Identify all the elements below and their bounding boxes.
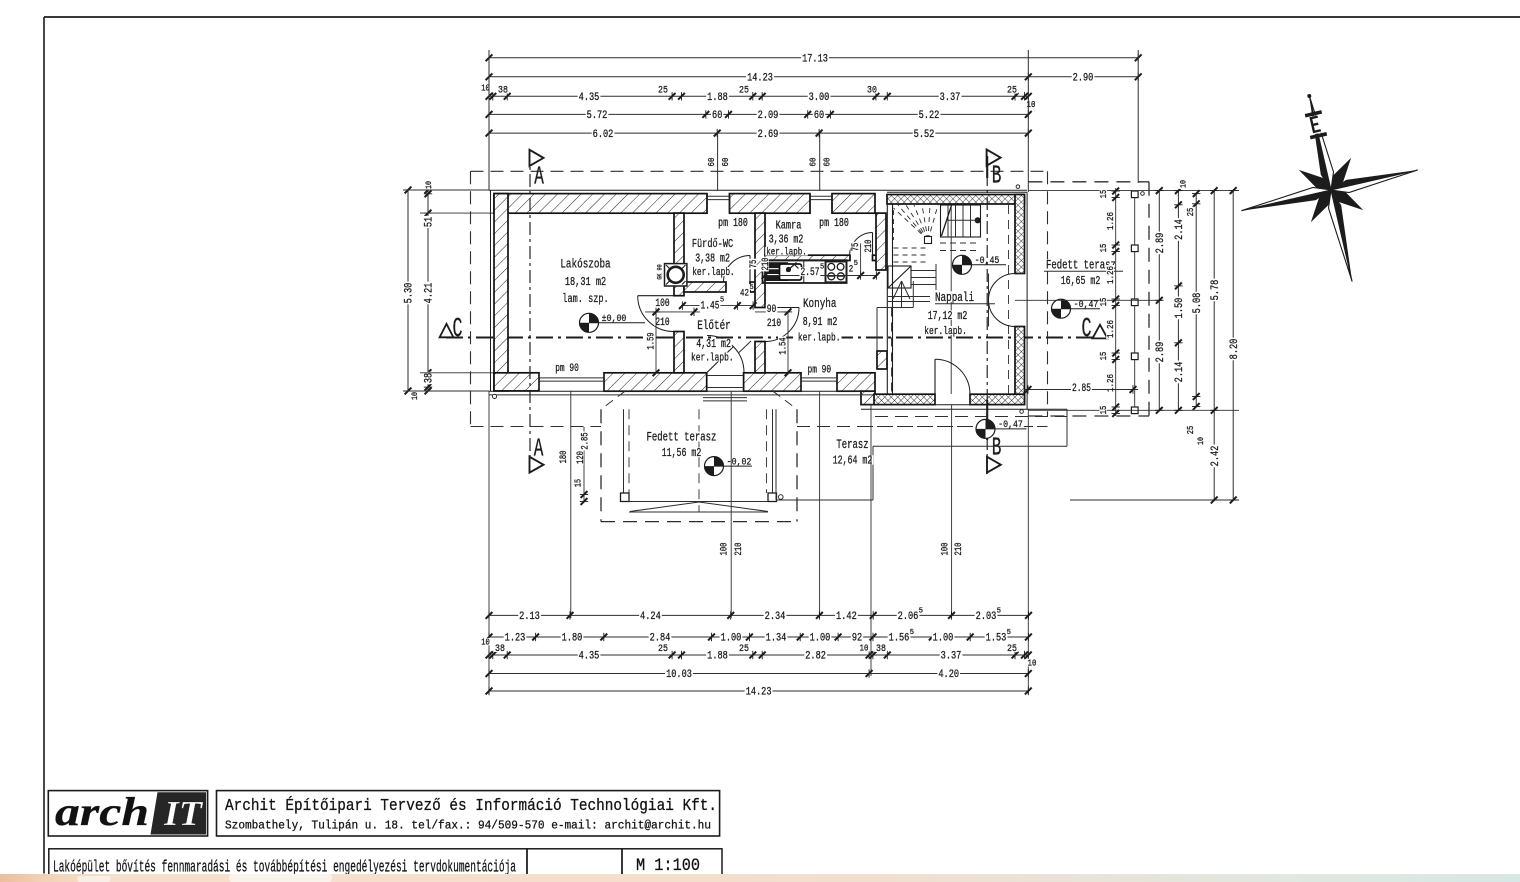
svg-text:5.78: 5.78 bbox=[1210, 280, 1222, 301]
door Lakoszoba leaf+arc bbox=[638, 295, 674, 297]
dimension row 6.02/2.69/5.52 bbox=[489, 132, 1028, 134]
svg-text:1.26: 1.26 bbox=[1105, 266, 1116, 284]
door Kamra leaf+arc bbox=[872, 233, 874, 256]
room label Furdo-WC bbox=[691, 238, 734, 248]
wall bottom segment 3 bbox=[744, 373, 801, 391]
base plaster lines bottom bbox=[489, 390, 875, 392]
room label Nappali bbox=[934, 291, 975, 302]
left extension lines bbox=[403, 189, 489, 191]
stair upper flight bbox=[941, 205, 981, 237]
right dim 2.14/1.50/2.14 bbox=[1177, 191, 1179, 411]
svg-text:5: 5 bbox=[854, 260, 858, 268]
entrance door threshold bbox=[707, 375, 744, 377]
room label Fedett terasz right bbox=[1045, 259, 1117, 269]
svg-text:4.35: 4.35 bbox=[579, 651, 600, 663]
svg-text:38: 38 bbox=[498, 85, 508, 97]
svg-text:5.52: 5.52 bbox=[914, 129, 935, 141]
svg-text:arch: arch bbox=[55, 789, 149, 834]
svg-text:5: 5 bbox=[997, 607, 1001, 615]
svg-text:1.56: 1.56 bbox=[889, 633, 910, 645]
new wall bottom bbox=[874, 394, 935, 404]
svg-text:1.42: 1.42 bbox=[836, 611, 857, 623]
wall top segment 1 bbox=[494, 194, 707, 214]
section line A bbox=[529, 150, 531, 470]
svg-text:25: 25 bbox=[1186, 208, 1196, 217]
covered terrace ridge dashed bbox=[698, 409, 700, 512]
svg-text:1.00: 1.00 bbox=[933, 633, 954, 645]
interior wall Elotier right lower bbox=[755, 342, 765, 373]
chimney flue symbol bbox=[665, 264, 687, 286]
window bottom Lakoszoba (pm 90) bbox=[539, 377, 604, 379]
title block empty box bbox=[527, 849, 622, 875]
svg-text:10: 10 bbox=[424, 181, 434, 189]
svg-text:Lakószoba: Lakószoba bbox=[560, 257, 610, 272]
interior dim 2-5 pier bbox=[860, 243, 862, 276]
svg-text:8,91 m2: 8,91 m2 bbox=[803, 316, 838, 329]
svg-text:5: 5 bbox=[919, 607, 923, 615]
title block project box bbox=[49, 849, 527, 875]
svg-text:25: 25 bbox=[658, 85, 668, 97]
interior wall Lakoszoba right lower bbox=[674, 332, 684, 373]
dimension row 17.13 bbox=[489, 57, 1138, 59]
svg-text:60: 60 bbox=[808, 157, 819, 166]
svg-text:17,12 m2: 17,12 m2 bbox=[928, 310, 968, 323]
svg-text:Kamra: Kamra bbox=[776, 218, 802, 232]
svg-text:14.23: 14.23 bbox=[746, 687, 772, 699]
door Furdo leaf+arc bbox=[749, 256, 751, 283]
interior wall Elotier right upper bbox=[755, 213, 765, 307]
wall bottom segment 4 bbox=[837, 373, 875, 391]
svg-text:C: C bbox=[1082, 315, 1092, 345]
logo IT parallelogram bbox=[151, 792, 207, 834]
dimension row top detail 38/4.35/25/1.88/25/3.00/30/3.37/25 bbox=[489, 95, 1028, 97]
window label pm 180 left bbox=[717, 218, 749, 227]
svg-text:ker.lapb.: ker.lapb. bbox=[766, 247, 807, 259]
svg-text:pm 180: pm 180 bbox=[819, 217, 849, 230]
outer plaster line top bbox=[489, 189, 1027, 191]
window label pm 90 left bbox=[554, 363, 580, 372]
svg-text:210: 210 bbox=[864, 240, 875, 253]
svg-text:60: 60 bbox=[814, 110, 824, 122]
covered terrace edge beam bbox=[629, 501, 768, 503]
svg-text:100: 100 bbox=[720, 543, 731, 556]
new wall base lines bbox=[861, 404, 1025, 406]
svg-text:15: 15 bbox=[1099, 406, 1109, 415]
roof overhang dashed outline bbox=[471, 170, 1048, 172]
interior dim 75/210 Kamra door bbox=[851, 242, 862, 253]
open terrace outline bbox=[775, 409, 777, 500]
svg-text:B: B bbox=[992, 161, 1002, 191]
svg-text:2.09: 2.09 bbox=[758, 110, 779, 122]
new wall right upper bbox=[1015, 195, 1025, 274]
room label Elotier bbox=[696, 319, 732, 330]
right dim 5.78/2.42 bbox=[1213, 191, 1215, 500]
svg-text:210: 210 bbox=[954, 543, 965, 556]
svg-text:10: 10 bbox=[1028, 658, 1037, 669]
svg-text:2.13: 2.13 bbox=[519, 611, 540, 623]
window label pm 180 right bbox=[818, 218, 850, 227]
svg-text:25: 25 bbox=[1007, 85, 1017, 97]
svg-text:ker.lapb.: ker.lapb. bbox=[691, 353, 734, 365]
room label Terasz bbox=[835, 439, 869, 449]
svg-text:5.08: 5.08 bbox=[1192, 293, 1204, 314]
level marker B bottom -0,47 bbox=[976, 419, 995, 438]
room label Kamra bbox=[775, 220, 803, 230]
chimney GK label bbox=[657, 263, 664, 280]
svg-text:A: A bbox=[534, 162, 544, 192]
svg-text:1.53: 1.53 bbox=[986, 633, 1007, 645]
title block logo box bbox=[48, 791, 207, 836]
right extension line terrace bottom bbox=[1070, 499, 1239, 501]
svg-text:5: 5 bbox=[820, 263, 824, 271]
title block company box bbox=[217, 791, 720, 836]
svg-text:2.85: 2.85 bbox=[1072, 383, 1091, 395]
svg-text:Terasz: Terasz bbox=[836, 438, 868, 452]
svg-text:1.80: 1.80 bbox=[562, 633, 583, 645]
svg-text:1.50: 1.50 bbox=[1174, 298, 1186, 319]
svg-text:25: 25 bbox=[1186, 426, 1196, 435]
svg-text:Fürdő-WC: Fürdő-WC bbox=[692, 237, 733, 251]
room label Konyha bbox=[802, 298, 838, 309]
svg-text:2.14: 2.14 bbox=[1174, 361, 1186, 382]
dimension row 14.23 / 2.90 bbox=[489, 76, 1138, 78]
svg-text:60: 60 bbox=[720, 157, 731, 166]
svg-text:-0,47: -0,47 bbox=[1074, 299, 1099, 311]
svg-text:1.88: 1.88 bbox=[707, 92, 728, 104]
svg-text:25: 25 bbox=[739, 643, 749, 655]
svg-text:180: 180 bbox=[559, 451, 570, 464]
window top 1 (pm 180) bbox=[707, 195, 730, 197]
corner block old/new junction bbox=[861, 391, 875, 404]
Kamra right wall bbox=[876, 213, 886, 270]
dimension row 5.72/60/2.09/60/5.22 bbox=[489, 113, 1028, 115]
svg-text:10: 10 bbox=[860, 643, 869, 654]
bottom dim row 10.03/4.20 bbox=[489, 673, 1028, 675]
window top 2 (pm 180) bbox=[810, 195, 832, 197]
window axis line with 60/60 labels left bbox=[717, 133, 719, 191]
bottom dim row 1.23/1.80/2.84/1.00/1.34/1.00/92/1.56-5/1.00/1.53-5 bbox=[489, 636, 1028, 638]
door entrance leaf+arc bbox=[707, 347, 734, 373]
entrance step lines bbox=[703, 397, 747, 399]
svg-text:3.37: 3.37 bbox=[940, 92, 961, 104]
interior dim 90/210 door Konyha bbox=[755, 311, 790, 313]
svg-text:60: 60 bbox=[706, 157, 717, 166]
bottom dim row 2.13/4.24/2.34/1.42/2.06-5/2.03-5 bbox=[489, 614, 1029, 616]
svg-text:1.26: 1.26 bbox=[1105, 320, 1116, 338]
svg-text:1.34: 1.34 bbox=[766, 633, 787, 645]
wall left bbox=[494, 194, 508, 391]
kitchen sink divider bbox=[803, 260, 805, 283]
svg-text:25: 25 bbox=[739, 85, 749, 97]
corner survey circle bbox=[492, 394, 496, 398]
section line B bbox=[986, 149, 988, 474]
new wall outer line right bbox=[1026, 192, 1028, 409]
level marker Fedett terasz bottom bbox=[705, 457, 724, 476]
svg-text:30: 30 bbox=[867, 85, 877, 97]
interior dim 75/210 Furdo door bbox=[749, 259, 760, 270]
interior dim 1.45-5 bbox=[681, 305, 753, 307]
svg-text:15: 15 bbox=[1099, 190, 1109, 199]
svg-text:2.89: 2.89 bbox=[1155, 342, 1167, 363]
svg-text:25: 25 bbox=[658, 643, 668, 655]
svg-text:2: 2 bbox=[849, 263, 854, 275]
svg-text:11,56 m2: 11,56 m2 bbox=[662, 447, 702, 460]
room label Fedett terasz bottom bbox=[646, 431, 718, 441]
new wall top bbox=[887, 195, 1025, 205]
Kamra bottom wall bbox=[765, 255, 850, 260]
covered terrace post left bbox=[621, 493, 630, 502]
svg-text:4.24: 4.24 bbox=[640, 611, 661, 623]
svg-text:5: 5 bbox=[720, 297, 724, 305]
window axis line with 60/60 labels right bbox=[819, 133, 821, 191]
room label Lakoszoba bbox=[559, 258, 611, 269]
svg-text:2.14: 2.14 bbox=[1174, 219, 1186, 240]
svg-text:15: 15 bbox=[1099, 244, 1109, 253]
interior dim 2.57-5 kitchen bbox=[765, 275, 876, 277]
svg-text:210: 210 bbox=[655, 317, 669, 329]
svg-text:IT: IT bbox=[163, 794, 204, 833]
left bottom dims 180/120/2.85/15 bbox=[583, 427, 585, 502]
title block scale box bbox=[622, 849, 722, 875]
double door Nappali right bbox=[988, 274, 990, 327]
svg-text:210: 210 bbox=[761, 258, 772, 271]
svg-text:4.35: 4.35 bbox=[579, 92, 600, 104]
svg-text:75: 75 bbox=[749, 260, 760, 269]
bottom dim row 14.23 bbox=[489, 690, 1028, 692]
svg-text:2.85: 2.85 bbox=[581, 432, 592, 449]
svg-text:2.89: 2.89 bbox=[1155, 233, 1167, 254]
kitchen dark cabinet bbox=[765, 262, 788, 281]
svg-text:10: 10 bbox=[1196, 437, 1206, 445]
interior dim 100/210 door Lakoszoba bbox=[645, 311, 700, 313]
svg-text:Archit Építőipari Tervező és I: Archit Építőipari Tervező és Információ … bbox=[225, 796, 717, 815]
interior wall Furdo bottom bbox=[684, 282, 726, 292]
corner survey circle new bbox=[1016, 185, 1020, 189]
svg-text:10: 10 bbox=[481, 638, 490, 648]
stair winder dashed treads fan bbox=[894, 208, 929, 240]
right extension line bottom new part bbox=[1028, 409, 1239, 411]
svg-text:Konyha: Konyha bbox=[803, 296, 837, 311]
stair start box with cross bbox=[888, 266, 911, 288]
svg-text:±0,00: ±0,00 bbox=[602, 313, 627, 325]
stair dashed riser line bbox=[891, 308, 893, 395]
svg-text:4.20: 4.20 bbox=[938, 669, 959, 681]
svg-text:210: 210 bbox=[734, 543, 745, 556]
svg-text:90: 90 bbox=[767, 304, 777, 316]
section marker A top bbox=[530, 150, 544, 166]
svg-text:Előtér: Előtér bbox=[697, 318, 731, 333]
kitchen stove with burners bbox=[826, 262, 847, 283]
stair walk line with dot bbox=[975, 217, 981, 223]
level marker Nappali bbox=[953, 255, 972, 274]
pier Konyha/Nappali bbox=[877, 351, 887, 369]
door axis line right bbox=[1015, 299, 1162, 301]
level marker Lakoszoba bbox=[580, 313, 599, 332]
level marker Fedett terasz right bbox=[1052, 299, 1071, 318]
covered terrace gable triangle bbox=[630, 502, 768, 512]
stair lower treads bbox=[911, 270, 936, 272]
wall bottom segment 1 bbox=[494, 373, 539, 391]
stair focus square bbox=[925, 237, 932, 244]
svg-text:pm 180: pm 180 bbox=[718, 217, 748, 230]
covered terrace post right bbox=[768, 493, 777, 502]
svg-text:ker.lapb.: ker.lapb. bbox=[692, 267, 735, 279]
svg-text:38: 38 bbox=[495, 643, 505, 655]
svg-text:1.23: 1.23 bbox=[505, 633, 526, 645]
bottom axis extension lines bbox=[488, 391, 490, 694]
svg-text:25: 25 bbox=[1007, 643, 1017, 655]
interior vertical dim 1.54 Konyha bbox=[787, 312, 789, 373]
svg-text:2.82: 2.82 bbox=[805, 651, 826, 663]
svg-text:5.30: 5.30 bbox=[404, 283, 416, 304]
wall top segment 3 bbox=[832, 194, 875, 214]
svg-text:15: 15 bbox=[573, 479, 584, 487]
Nappali bottom door opening lines bbox=[934, 394, 936, 404]
outer plaster line left bbox=[490, 190, 492, 391]
svg-text:38: 38 bbox=[876, 643, 886, 655]
svg-text:60: 60 bbox=[712, 110, 722, 122]
svg-text:Szombathely, Tulipán u. 18. te: Szombathely, Tulipán u. 18. tel/fax.: 94… bbox=[225, 819, 711, 833]
right terrace posts bbox=[1131, 191, 1138, 198]
section marker B top bbox=[987, 150, 1001, 166]
svg-text:3.00: 3.00 bbox=[809, 92, 830, 104]
svg-text:ker.lapb.: ker.lapb. bbox=[798, 333, 841, 345]
svg-text:210: 210 bbox=[767, 318, 781, 330]
svg-text:2.69: 2.69 bbox=[758, 129, 779, 141]
window label pm 90 right bbox=[807, 364, 833, 373]
svg-text:2.90: 2.90 bbox=[1073, 73, 1094, 85]
covered terrace posts columns bbox=[623, 409, 625, 494]
north compass rose bbox=[1219, 74, 1439, 302]
svg-text:5.72: 5.72 bbox=[587, 110, 608, 122]
svg-text:17.13: 17.13 bbox=[802, 54, 828, 66]
door Nappali bottom leaf+arc bbox=[934, 359, 936, 394]
svg-text:51: 51 bbox=[424, 217, 436, 228]
Nappali axis line bbox=[950, 205, 952, 394]
svg-text:6.02: 6.02 bbox=[593, 129, 614, 141]
svg-text:5: 5 bbox=[750, 284, 754, 292]
svg-text:2.06: 2.06 bbox=[898, 611, 919, 623]
wall top segment 2 bbox=[730, 194, 811, 214]
svg-text:10: 10 bbox=[1178, 180, 1188, 188]
stair entry arrow bbox=[901, 281, 903, 308]
door size labels 100/210 left bbox=[719, 542, 730, 557]
right dim 2.85 horizontal bbox=[1025, 389, 1139, 391]
right dim post chain 15/1.26 bbox=[1115, 188, 1117, 416]
svg-text:12,64 m2: 12,64 m2 bbox=[833, 455, 873, 468]
kitchen sink unit bbox=[780, 264, 802, 280]
covered terrace roof hip dashes bbox=[601, 391, 625, 409]
svg-text:1.88: 1.88 bbox=[707, 651, 728, 663]
svg-text:5.22: 5.22 bbox=[919, 110, 940, 122]
Nappali dashed roof line bbox=[1008, 205, 1010, 394]
wall bottom segment 2 bbox=[604, 373, 707, 391]
new wall right lower bbox=[1015, 327, 1025, 405]
svg-text:100: 100 bbox=[941, 543, 952, 556]
svg-text:lam. szp.: lam. szp. bbox=[562, 292, 608, 306]
svg-text:18,31 m2: 18,31 m2 bbox=[565, 275, 606, 289]
svg-text:38: 38 bbox=[424, 373, 436, 383]
window bottom Konyha (pm 90) bbox=[801, 377, 837, 379]
new wall partition left bbox=[886, 204, 888, 394]
svg-text:100: 100 bbox=[655, 298, 669, 310]
svg-text:pm 90: pm 90 bbox=[808, 364, 832, 376]
svg-text:15: 15 bbox=[1099, 298, 1109, 307]
sheet border frame bbox=[43, 17, 45, 874]
svg-text:ker.lapb.: ker.lapb. bbox=[924, 326, 967, 338]
svg-text:5: 5 bbox=[1007, 629, 1011, 637]
interior dim 42-5 bbox=[739, 288, 750, 297]
svg-text:4.21: 4.21 bbox=[424, 282, 436, 303]
right terrace post axis bbox=[1134, 191, 1136, 414]
svg-text:2.57: 2.57 bbox=[801, 267, 820, 279]
section marker C left bbox=[440, 324, 454, 337]
svg-text:GK 90: GK 90 bbox=[657, 264, 664, 279]
kitchen counter outline bbox=[763, 260, 847, 283]
svg-text:1.59: 1.59 bbox=[646, 332, 657, 349]
interior vertical dim 1.59 Elotier bbox=[655, 312, 657, 373]
svg-text:3,38 m2: 3,38 m2 bbox=[695, 252, 730, 265]
svg-text:10.03: 10.03 bbox=[666, 669, 692, 681]
stair break diagonal bbox=[941, 205, 951, 236]
right dim 5.08 with 25/10 marks bbox=[1195, 194, 1197, 407]
door Konyha leaf+arc bbox=[765, 307, 799, 309]
right covered terrace dashed outline bbox=[1028, 181, 1149, 183]
svg-text:1.54: 1.54 bbox=[778, 337, 789, 354]
svg-text:Nappali: Nappali bbox=[935, 290, 974, 305]
svg-text:10: 10 bbox=[481, 84, 490, 94]
svg-text:3.37: 3.37 bbox=[941, 651, 962, 663]
section line C bbox=[446, 336, 1100, 338]
svg-text:60: 60 bbox=[822, 157, 833, 166]
covered terrace bottom dashed outline bbox=[600, 409, 602, 521]
left dimension line 5.30 bbox=[407, 190, 409, 391]
svg-text:8.20: 8.20 bbox=[1229, 339, 1241, 360]
bottom dim row 38/4.35/25/1.88/25/2.82/10/38/3.37/25 bbox=[489, 654, 1028, 656]
svg-text:2.03: 2.03 bbox=[976, 611, 997, 623]
svg-text:1.45: 1.45 bbox=[701, 300, 720, 312]
Nappali right double door opening lines bbox=[1015, 273, 1025, 275]
svg-text:2.42: 2.42 bbox=[1210, 446, 1222, 467]
left dimension line 10/51/4.21/38/10 bbox=[427, 190, 429, 391]
top extension lines bbox=[488, 50, 490, 190]
svg-text:1.26: 1.26 bbox=[1105, 212, 1116, 230]
right extension line top bbox=[1028, 190, 1239, 192]
svg-text:pm 90: pm 90 bbox=[555, 363, 579, 375]
svg-text:4,31 m2: 4,31 m2 bbox=[696, 338, 731, 351]
right dim 2.89/2.89 bbox=[1158, 191, 1160, 411]
svg-text:15: 15 bbox=[1099, 352, 1109, 361]
svg-text:3,36 m2: 3,36 m2 bbox=[769, 233, 804, 246]
door size labels 100/210 right bbox=[940, 542, 951, 557]
svg-text:120: 120 bbox=[576, 451, 587, 464]
svg-text:1.00: 1.00 bbox=[810, 633, 831, 645]
svg-text:C: C bbox=[453, 315, 463, 345]
svg-text:B: B bbox=[992, 433, 1002, 463]
svg-text:-0,47: -0,47 bbox=[998, 419, 1023, 431]
right dim 8.20 bbox=[1232, 191, 1234, 500]
stair winder dashed treads lower bbox=[940, 242, 980, 244]
svg-text:16,65 m2: 16,65 m2 bbox=[1061, 275, 1101, 288]
interior wall Lakoszoba right upper bbox=[674, 213, 684, 296]
svg-text:5: 5 bbox=[910, 629, 914, 637]
svg-text:14.23: 14.23 bbox=[747, 73, 773, 85]
open terrace overhang dashes bbox=[875, 416, 1067, 418]
svg-text:Fedett terasz: Fedett terasz bbox=[647, 431, 717, 445]
svg-text:42: 42 bbox=[740, 288, 749, 300]
svg-text:2.34: 2.34 bbox=[765, 611, 786, 623]
svg-text:-0,02: -0,02 bbox=[727, 456, 752, 468]
